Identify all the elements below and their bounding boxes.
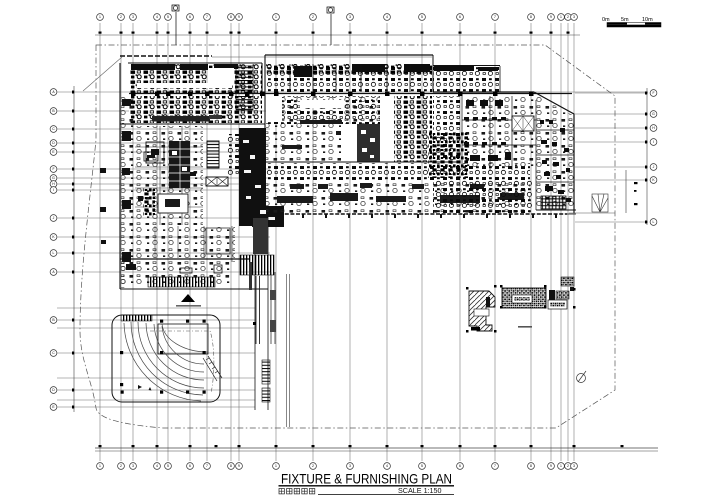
svg-text:8: 8 [530,464,532,468]
ramp canopy hatched strip [121,315,152,321]
svg-text:7: 7 [494,464,496,468]
promenade band with counters [266,181,530,213]
vertical grid lines [100,23,574,461]
svg-text:2: 2 [120,464,122,468]
svg-text:6: 6 [189,464,191,468]
canopy dashed roof line [120,55,212,57]
svg-text:10m: 10m [642,17,653,23]
right wing interior [433,96,462,160]
svg-text:3: 3 [132,15,134,19]
tower outline [120,55,268,289]
svg-text:3: 3 [132,464,134,468]
svg-text:2: 2 [312,15,314,19]
entrance hatched canopy [148,277,215,287]
svg-text:2: 2 [120,15,122,19]
restaurant white aisles [129,68,235,123]
svg-text:7: 7 [494,15,496,19]
svg-text:2: 2 [312,464,314,468]
svg-text:F: F [652,91,654,95]
top dimension line with ticks [95,32,580,36]
left grid bubbles [50,89,57,411]
private dining room [158,194,188,213]
ramp route dash line [150,331,214,393]
svg-text:SCALE 1:150: SCALE 1:150 [398,486,442,495]
svg-text:G: G [652,112,655,116]
detail plan column dots [466,285,576,333]
svg-text:4: 4 [156,464,158,468]
svg-text:1: 1 [99,15,101,19]
spa room accents [138,152,196,201]
svg-text:1: 1 [275,464,277,468]
svg-text:8: 8 [230,464,232,468]
pantry room with table [146,142,164,163]
svg-text:I: I [53,188,54,192]
right dimension line with ticks [645,88,647,225]
bar counter strip [143,188,155,216]
svg-text:9: 9 [550,464,552,468]
elevator pair [206,177,228,186]
svg-text:5: 5 [421,15,423,19]
top grid bubbles [97,14,578,21]
svg-text:F: F [52,167,54,171]
main dining hall [266,96,394,162]
bottom grid bubbles [97,463,578,470]
leader marks left margin [100,168,106,173]
top marker flags [172,5,334,45]
wall under restaurant [120,123,265,125]
svg-text:8: 8 [230,15,232,19]
svg-text:9: 9 [238,15,240,19]
right wing chamfer and east wall [534,92,574,213]
kitchen block top right [433,66,500,92]
svg-text:1: 1 [99,464,101,468]
svg-text:1: 1 [560,464,562,468]
svg-text:3: 3 [349,15,351,19]
round table cluster [394,96,432,162]
svg-text:7: 7 [206,15,208,19]
ramp exit wedge [203,356,222,381]
svg-text:7: 7 [206,464,208,468]
svg-text:6: 6 [189,15,191,19]
dining counters [282,120,364,149]
left dimension line with ticks [72,86,74,412]
svg-text:FIXTURE & FURNISHING PLAN: FIXTURE & FURNISHING PLAN [281,472,452,487]
terrace column stubs [279,214,557,218]
detail plan tiny label [518,326,532,328]
restaurant upper block texture [129,64,262,93]
CORE black block [239,128,284,227]
ramp small arrows [138,385,152,391]
buffet island centerpiece [357,124,380,162]
svg-text:5: 5 [421,464,423,468]
site walk diagonal top-left [83,57,122,91]
svg-text:1: 1 [560,15,562,19]
dining white aisles [266,96,394,162]
svg-text:G: G [52,176,55,180]
svg-text:2: 2 [567,15,569,19]
svg-text:L: L [53,251,55,255]
tower west room strip [121,96,135,288]
svg-text:5: 5 [167,464,169,468]
service rooms right of elevators [227,134,239,177]
storefront bottom edge [268,213,567,215]
scale bar [602,17,661,27]
lobby lounge [121,261,231,287]
horizontal grid lines left [57,92,648,407]
middle wing top edge [265,54,433,56]
svg-text:6: 6 [459,464,461,468]
treatment rooms below spa [135,226,235,262]
right wing equipment rows [464,100,571,202]
bottom dimension double line with ticks [95,445,658,451]
svg-text:2: 2 [567,464,569,468]
dashed property boundary [80,45,615,428]
stairs top right of restaurant [236,66,253,110]
walkway double line [286,274,288,427]
svg-text:3: 3 [573,15,575,19]
svg-text:J: J [53,216,55,220]
kitchen equipment dark cluster [428,132,468,178]
svg-text:5: 5 [167,15,169,19]
grid bubble labels [52,15,655,468]
svg-text:3: 3 [573,464,575,468]
svg-text:5m: 5m [621,17,629,23]
svg-text:3: 3 [349,464,351,468]
svg-text:4: 4 [386,15,388,19]
svg-text:0m: 0m [602,17,610,23]
svg-text:1: 1 [275,15,277,19]
east service line [625,170,627,213]
svg-text:4: 4 [156,15,158,19]
middle wing private rooms band [266,64,432,92]
spa rooms block [135,126,203,225]
detail plan: hatched bar [502,288,546,308]
corridor to ramp [240,216,276,410]
east rooms [536,95,574,210]
rotated flag symbol lower right [577,371,587,383]
hotel entrance triangle [181,294,195,302]
main beaded wall [129,93,572,95]
elevators right wing [512,116,534,131]
svg-text:9: 9 [550,15,552,19]
service rooms lower right [433,180,533,213]
ramp columns [120,320,206,394]
restaurant lower dining texture [129,96,262,123]
detail plan: right group [548,277,574,309]
horizontal grid lines right [575,93,648,222]
svg-text:I: I [653,140,654,144]
svg-text:8: 8 [530,15,532,19]
restaurant dark top band [131,64,238,70]
right wing top edge [433,91,534,93]
svg-text:4: 4 [386,464,388,468]
right grid bubbles [650,90,657,226]
lower tables band [266,163,530,180]
svg-text:J: J [653,165,655,169]
buffet counter [152,116,210,122]
svg-text:9: 9 [238,464,240,468]
ramp arcs [124,322,208,401]
svg-text:6: 6 [459,15,461,19]
svg-text:L: L [653,220,655,224]
grate grille block [541,196,566,209]
title block [279,472,455,496]
ramp canopy structure [112,315,220,402]
BOH dark cell column [169,141,190,188]
detail plan: pool plant left blob [469,291,495,331]
tree symbol [592,194,608,212]
stair block [207,141,219,168]
